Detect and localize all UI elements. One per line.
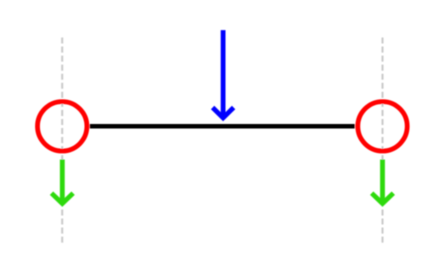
- dashed guide line right: [382, 38, 384, 244]
- support circle right: [358, 102, 407, 151]
- beam: [90, 124, 355, 129]
- dashed guide line left: [61, 38, 63, 244]
- support circle left: [38, 102, 87, 151]
- applied force arrow (blue): [213, 30, 234, 118]
- reaction arrow left (green): [52, 160, 74, 204]
- reaction arrow right (green): [372, 160, 394, 204]
